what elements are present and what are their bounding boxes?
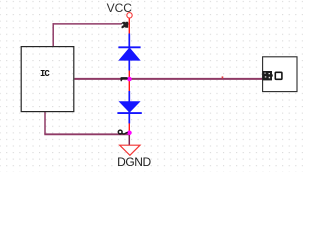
diode D1 (clamp to VCC) xyxy=(118,34,140,71)
label VCC xyxy=(107,1,132,15)
wire: VCC branch vertical from IC top xyxy=(52,23,54,46)
node: bottom red vertical segment to DGND junction xyxy=(128,123,130,132)
wire: VCC branch horizontal xyxy=(53,23,129,25)
power port DGND (red triangle) xyxy=(120,145,140,155)
pin number 1 (bottom diode, rotated) xyxy=(118,130,122,134)
junction dot middle node xyxy=(127,77,132,82)
wire vertex tick on middle net xyxy=(222,76,224,78)
pin number 2 (top diode, rotated) xyxy=(121,22,128,29)
component port box xyxy=(263,57,297,92)
background grid xyxy=(0,0,303,172)
wire: DGND branch horizontal xyxy=(44,133,129,135)
wire: middle horizontal net IC to port xyxy=(75,78,263,80)
node: middle red vertical segment through junction xyxy=(128,70,130,91)
component IC box xyxy=(21,47,74,112)
pin number 1 (middle junction, rotated) xyxy=(120,77,127,79)
label DGND xyxy=(117,155,151,169)
label 端口 glyph 端 xyxy=(262,71,273,80)
wire stub: junction to DGND symbol xyxy=(128,134,130,145)
wire: DGND branch vertical from IC bottom xyxy=(44,112,46,135)
node: VCC red vertical segment xyxy=(128,18,130,34)
power port VCC (red circle) xyxy=(127,13,132,18)
diode D2 (clamp to DGND) xyxy=(117,91,141,123)
junction dot DGND node xyxy=(127,131,132,136)
label 端口 glyph 口 xyxy=(275,72,282,79)
label IC xyxy=(40,69,49,79)
